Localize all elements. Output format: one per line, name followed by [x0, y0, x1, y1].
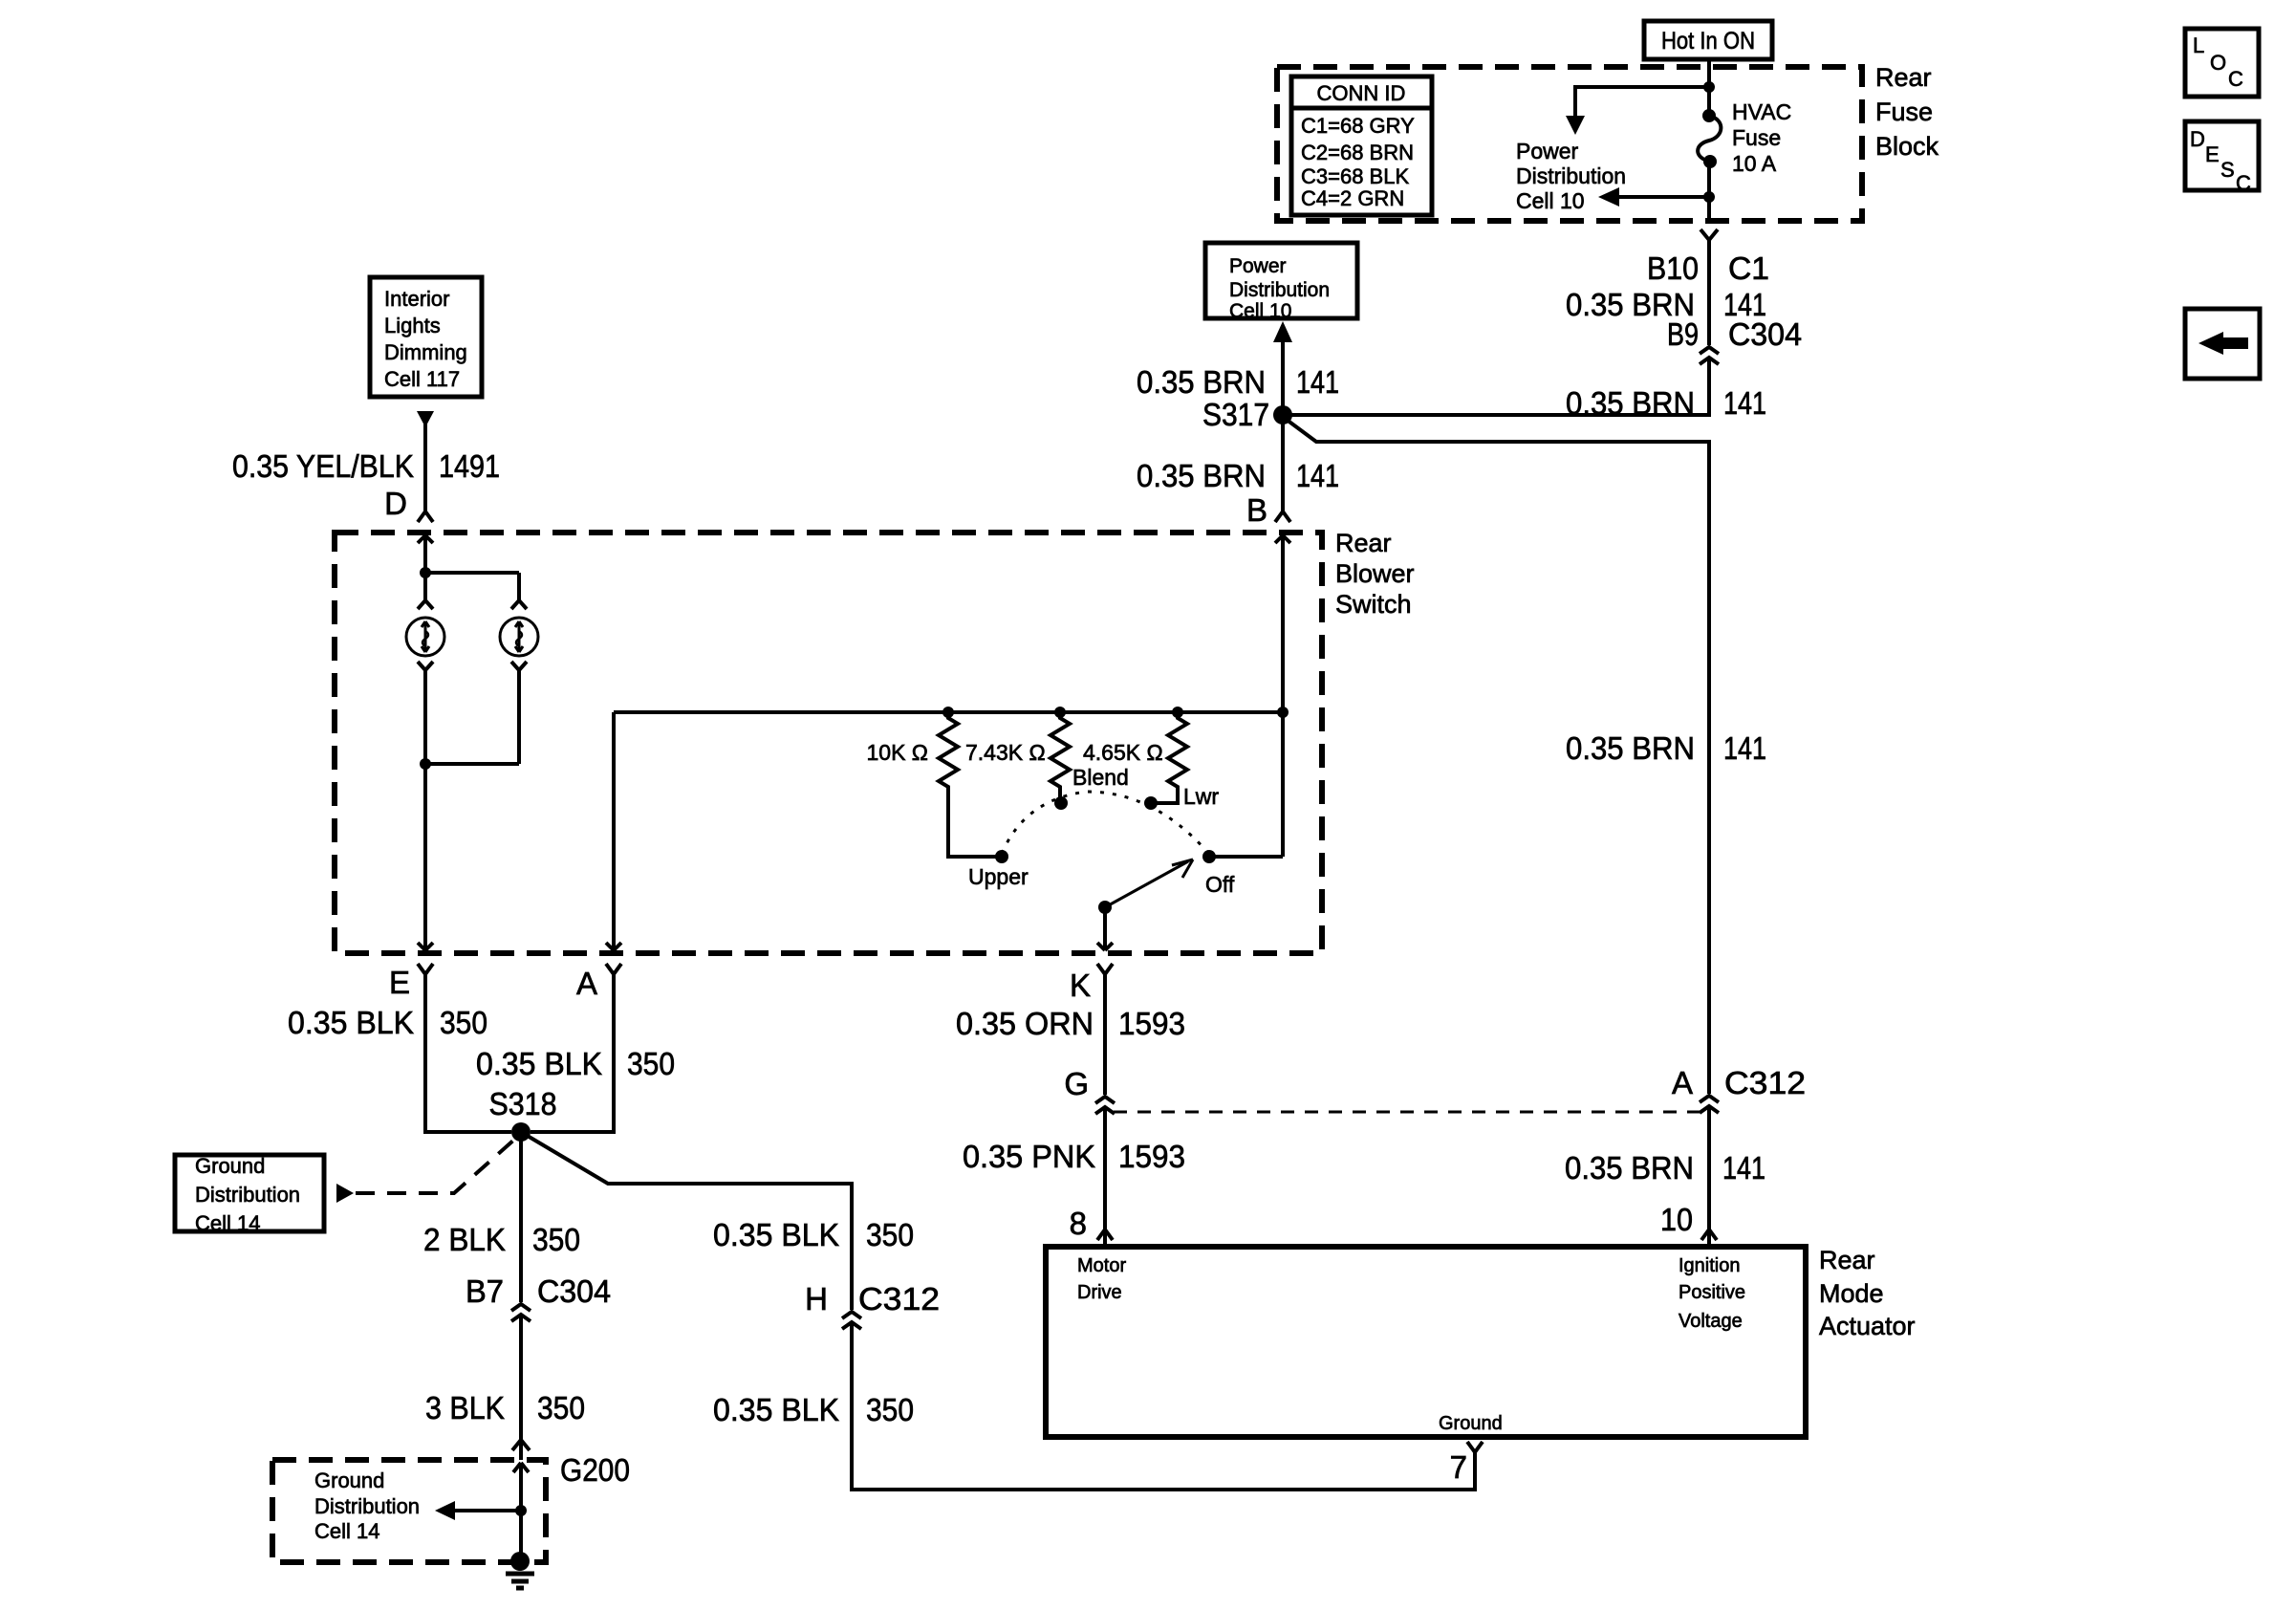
svg-text:350: 350 [440, 1005, 487, 1040]
svg-text:Distribution: Distribution [1229, 279, 1330, 301]
svg-text:Distribution: Distribution [314, 1494, 420, 1518]
illumination lamp 1 [406, 573, 444, 764]
Ground Distribution Cell 14 box (upper) [175, 1154, 324, 1235]
wire branch to Power Distribution (down arrow) [1575, 87, 1709, 119]
svg-text:D: D [384, 486, 407, 521]
svg-text:Ground: Ground [195, 1154, 265, 1178]
svg-text:350: 350 [866, 1392, 914, 1427]
wire lamp bottom bridge [425, 762, 519, 766]
DESC legend box [2185, 121, 2259, 195]
svg-text:C1=68 GRY: C1=68 GRY [1301, 114, 1415, 138]
svg-text:141: 141 [1296, 458, 1339, 493]
wire pin A internal (bus to bottom edge, down arrow) [606, 712, 621, 950]
svg-text:0.35 BLK: 0.35 BLK [476, 1046, 602, 1081]
wire 0.35 BRN 141 from S317 up to Power Distribution (arrow) [1137, 321, 1339, 415]
wire 0.35 BRN 141 from C312 to actuator pin 10 [1565, 1106, 1765, 1247]
svg-text:0.35 BLK: 0.35 BLK [713, 1217, 839, 1252]
svg-text:1491: 1491 [439, 448, 500, 484]
svg-text:A: A [1672, 1065, 1693, 1100]
svg-text:0.35 BLK: 0.35 BLK [288, 1005, 414, 1040]
svg-text:7.43K Ω: 7.43K Ω [965, 740, 1046, 765]
connector C312 pin H (inline Y + double chevron) [805, 1281, 940, 1329]
connector pin E of Rear Blower Switch [389, 964, 433, 1000]
svg-text:Distribution: Distribution [1516, 163, 1626, 188]
connector C1 pin B10 (female Y) [1647, 229, 1769, 286]
ground reference dashed arrow to S318 [336, 1140, 514, 1203]
svg-text:B7: B7 [466, 1273, 504, 1309]
svg-text:G200: G200 [560, 1452, 630, 1488]
CONN ID table [1291, 76, 1432, 215]
svg-text:Rear: Rear [1819, 1246, 1875, 1274]
dashed tie line C312 [1114, 1111, 1700, 1114]
svg-text:Ground: Ground [314, 1469, 384, 1492]
svg-text:Motor: Motor [1077, 1255, 1126, 1276]
wire lamp return to pin E (down arrow) [418, 764, 433, 950]
connector pin K of Rear Blower Switch [1070, 964, 1113, 1003]
node bus tap R1 [942, 707, 954, 718]
svg-text:B9: B9 [1667, 316, 1699, 352]
svg-text:7: 7 [1450, 1449, 1467, 1485]
fuse HVAC Fuse 10 A [1698, 99, 1791, 176]
connector pin 8 of Rear Mode Actuator [1070, 1206, 1113, 1241]
Rear Fuse Block title [1875, 63, 1939, 161]
svg-text:HVAC: HVAC [1732, 99, 1791, 124]
wire resistor bus [614, 710, 1283, 714]
connector C312 pin G (inline Y + double chevron) [1064, 1066, 1115, 1114]
contact Off [1202, 850, 1235, 897]
Interior Lights Dimming Cell 117 box [370, 277, 482, 397]
connector pin A of Rear Blower Switch [576, 964, 621, 1001]
wire lamp top bridge [425, 571, 519, 575]
node fuse output junction [1703, 191, 1715, 203]
connector C304 pin B9 (inline Y + double chevron) [1667, 316, 1802, 364]
wire G200 internal drop [519, 1463, 523, 1553]
wire wiper to pin K (down arrow) [1097, 907, 1113, 950]
svg-text:Blower: Blower [1335, 559, 1415, 588]
svg-text:Interior: Interior [384, 287, 449, 311]
ground symbol G200 [506, 1552, 534, 1588]
illumination lamp 2 [500, 573, 538, 764]
svg-text:Rear: Rear [1335, 529, 1392, 557]
svg-text:CONN ID: CONN ID [1317, 81, 1406, 105]
ground connector G200 (chevron + arrow at boundary) [512, 1440, 630, 1488]
svg-text:S318: S318 [489, 1086, 557, 1121]
node bus tap R2 [1054, 707, 1066, 718]
contact Upper [968, 850, 1029, 889]
Power Distribution Cell 10 box [1205, 243, 1357, 322]
connector pin D of Rear Blower Switch [384, 486, 433, 543]
svg-text:B: B [1246, 492, 1267, 528]
wire 0.35 BLK 350 from pin A to S318 [476, 974, 675, 1132]
svg-text:2 BLK: 2 BLK [423, 1222, 506, 1257]
svg-text:C3=68 BLK: C3=68 BLK [1301, 164, 1409, 188]
svg-text:350: 350 [866, 1217, 914, 1252]
svg-text:Blend: Blend [1072, 765, 1129, 790]
node bus feed junction [1277, 707, 1289, 718]
svg-text:0.35 BRN: 0.35 BRN [1137, 364, 1266, 400]
svg-text:Lwr: Lwr [1183, 784, 1219, 809]
svg-text:1593: 1593 [1118, 1139, 1185, 1174]
wire 0.35 YEL/BLK 1491 from Interior Lights to switch pin D [232, 411, 500, 511]
svg-text:C4=2 GRN: C4=2 GRN [1301, 186, 1404, 210]
resistor 7.43K [965, 712, 1070, 791]
connector pin 7 of Rear Mode Actuator [1450, 1442, 1483, 1485]
Rear Blower Switch title [1335, 529, 1415, 619]
svg-text:4.65K Ω: 4.65K Ω [1083, 740, 1163, 765]
svg-text:Cell 10: Cell 10 [1516, 188, 1585, 213]
connector C312 pin A (inline Y + double chevron) [1672, 1065, 1806, 1113]
svg-text:C312: C312 [858, 1281, 940, 1316]
svg-text:Lights: Lights [384, 314, 441, 337]
svg-text:Fuse: Fuse [1875, 98, 1933, 126]
wire from Hot In ON into fuse block [1707, 59, 1711, 114]
svg-text:141: 141 [1722, 1150, 1765, 1186]
svg-text:Off: Off [1205, 872, 1235, 897]
svg-text:Drive: Drive [1077, 1282, 1122, 1303]
wire 0.35 BRN 141 from S317 down to switch pin B [1137, 415, 1339, 511]
splice S318 [489, 1086, 557, 1142]
svg-text:B10: B10 [1647, 250, 1699, 286]
switch wiper arm [1098, 859, 1193, 914]
svg-text:C312: C312 [1724, 1065, 1806, 1100]
svg-text:C304: C304 [1728, 316, 1802, 352]
wire pin D feed to lamps [423, 535, 427, 573]
svg-text:0.35 BRN: 0.35 BRN [1137, 458, 1266, 493]
svg-text:Rear: Rear [1875, 63, 1932, 92]
contact Blend [1054, 765, 1129, 810]
svg-text:1593: 1593 [1118, 1006, 1185, 1041]
svg-text:Mode: Mode [1819, 1279, 1884, 1308]
svg-text:Cell 14: Cell 14 [195, 1211, 260, 1235]
svg-text:10K Ω: 10K Ω [866, 740, 928, 765]
svg-text:C304: C304 [537, 1273, 611, 1309]
svg-text:141: 141 [1296, 364, 1339, 400]
svg-text:C: C [2228, 67, 2243, 91]
svg-text:G: G [1064, 1066, 1089, 1101]
back arrow legend box [2185, 309, 2260, 379]
resistor 10K [866, 712, 958, 791]
svg-text:Ignition: Ignition [1679, 1255, 1741, 1276]
svg-text:S: S [2220, 158, 2235, 182]
svg-text:0.35 BRN: 0.35 BRN [1565, 1150, 1694, 1186]
svg-text:Cell 10: Cell 10 [1229, 300, 1291, 322]
wire branch to ground distribution (left arrow) [435, 1501, 521, 1520]
svg-text:Fuse: Fuse [1732, 125, 1781, 150]
svg-text:0.35 BRN: 0.35 BRN [1566, 385, 1695, 421]
svg-text:0.35 YEL/BLK: 0.35 YEL/BLK [232, 448, 414, 484]
node lamp top junction [420, 567, 431, 578]
switch position arc (dotted) [1002, 792, 1207, 854]
svg-text:Ground: Ground [1439, 1413, 1503, 1434]
svg-text:Voltage: Voltage [1679, 1311, 1743, 1332]
svg-text:H: H [805, 1281, 828, 1316]
svg-text:Upper: Upper [968, 864, 1029, 889]
svg-text:Positive: Positive [1679, 1282, 1745, 1303]
wire 2 BLK 350 from S318 to C304 pin B7 [423, 1132, 580, 1302]
svg-text:Distribution: Distribution [195, 1183, 300, 1207]
Rear Mode Actuator box [1046, 1247, 1806, 1437]
svg-text:D: D [2190, 127, 2205, 151]
svg-text:Switch: Switch [1335, 590, 1412, 619]
svg-text:Power: Power [1516, 139, 1579, 163]
svg-text:141: 141 [1723, 730, 1766, 766]
contact Lwr [1144, 784, 1219, 810]
wire 0.35 BLK 350 from C312 to actuator pin 7 [713, 1322, 1475, 1490]
svg-text:3 BLK: 3 BLK [425, 1390, 505, 1425]
wire 10K to Upper contact [948, 791, 996, 857]
svg-text:C1: C1 [1728, 250, 1769, 286]
LOC legend box [2185, 29, 2259, 97]
Rear Mode Actuator title [1819, 1246, 1916, 1340]
svg-text:350: 350 [627, 1046, 675, 1081]
wire 0.35 ORN 1593 from pin K to C312 pin G [956, 974, 1185, 1095]
label Power Distribution Cell 10 (fuse block) [1516, 139, 1626, 213]
svg-text:10: 10 [1660, 1202, 1693, 1237]
wire 3 BLK 350 from C304 to G200 [425, 1315, 585, 1460]
svg-text:K: K [1070, 968, 1091, 1003]
wire 0.35 BRN 141 from S317 to Rear Mode Actuator (right column) [1283, 417, 1766, 1094]
power source label Hot In ON [1644, 21, 1772, 59]
wire 0.35 BRN 141 from C304 down to S317 [1283, 358, 1766, 421]
resistor 4.65K [1083, 712, 1187, 791]
Ground Distribution Cell 14 dashed box (G200) [272, 1460, 546, 1562]
svg-text:E: E [2205, 142, 2220, 166]
connector C304 pin B7 (inline Y + double chevron) [466, 1273, 611, 1321]
node G200 branch junction [515, 1505, 527, 1516]
svg-text:0.35 PNK: 0.35 PNK [963, 1139, 1095, 1174]
wire 0.35 BRN 141 from C1 to C304 [1566, 240, 1766, 345]
node lamp bottom junction [420, 758, 431, 770]
svg-text:10 A: 10 A [1732, 151, 1777, 176]
svg-text:E: E [389, 965, 410, 1000]
Rear Fuse Block dashed boundary [1277, 67, 1862, 221]
svg-text:A: A [576, 966, 597, 1001]
svg-text:Actuator: Actuator [1819, 1312, 1916, 1340]
svg-text:Dimming: Dimming [384, 340, 467, 364]
wire pin B feed down to Off contact [1281, 535, 1285, 857]
svg-text:O: O [2210, 51, 2226, 75]
connector pin 10 of Rear Mode Actuator [1660, 1202, 1717, 1240]
svg-text:S317: S317 [1202, 397, 1269, 432]
wire fuse output down [1707, 162, 1711, 221]
splice S317 [1202, 397, 1292, 432]
svg-text:8: 8 [1070, 1206, 1087, 1241]
svg-text:Cell 117: Cell 117 [384, 367, 460, 391]
svg-text:0.35 BRN: 0.35 BRN [1566, 730, 1695, 766]
svg-text:Power: Power [1229, 255, 1287, 277]
svg-text:141: 141 [1723, 385, 1766, 421]
wire branch to Power Distribution (left arrow) [1617, 195, 1709, 199]
wire 0.35 BLK 350 from S318 to C312 pin H [521, 1132, 914, 1310]
svg-text:Block: Block [1875, 132, 1939, 161]
node feed junction above fuse [1703, 81, 1715, 93]
svg-text:L: L [2193, 33, 2204, 57]
svg-text:C2=68 BRN: C2=68 BRN [1301, 141, 1414, 164]
Rear Blower Switch dashed boundary [335, 533, 1322, 953]
wire Off contact to feed [1209, 855, 1283, 859]
svg-text:350: 350 [537, 1390, 585, 1425]
connector pin B of Rear Blower Switch [1246, 492, 1290, 543]
node bus tap R3 [1172, 707, 1183, 718]
wire 0.35 PNK 1593 from C312 to actuator pin 8 [963, 1107, 1185, 1247]
svg-text:350: 350 [532, 1222, 580, 1257]
svg-text:Hot In ON: Hot In ON [1661, 28, 1755, 54]
svg-text:Cell 14: Cell 14 [314, 1519, 379, 1543]
svg-text:C: C [2236, 171, 2251, 195]
svg-text:0.35 BLK: 0.35 BLK [713, 1392, 839, 1427]
wire 0.35 BLK 350 from pin E to S318 [288, 974, 511, 1132]
svg-text:0.35 ORN: 0.35 ORN [956, 1006, 1094, 1041]
